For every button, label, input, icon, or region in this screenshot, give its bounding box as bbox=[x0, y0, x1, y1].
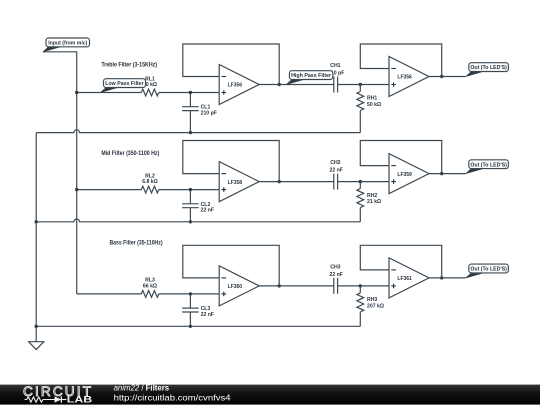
node feedback A junction bbox=[278, 284, 281, 287]
capacitor CH2 bbox=[329, 160, 342, 190]
svg-text:Out (To LED'S): Out (To LED'S) bbox=[470, 162, 507, 168]
svg-text:LF356: LF356 bbox=[228, 83, 243, 89]
svg-text:LF359: LF359 bbox=[397, 172, 412, 178]
wire CH1 to op-amp B bbox=[338, 84, 389, 86]
flag Out (To LED'S) row 2 bbox=[466, 160, 509, 174]
resistor RH2 bbox=[357, 182, 381, 222]
wire op-amp B output bbox=[429, 76, 466, 78]
svg-text:LAB: LAB bbox=[67, 395, 93, 405]
svg-text:RH2: RH2 bbox=[367, 193, 377, 199]
svg-text:21 kΩ: 21 kΩ bbox=[367, 199, 381, 205]
resistor RH3 bbox=[357, 286, 384, 326]
wire feedback op-amp LF356 bbox=[360, 44, 441, 77]
svg-text:LF360: LF360 bbox=[228, 284, 243, 290]
wire op-amp A output to CH1 bbox=[259, 84, 334, 86]
svg-text:22 nF: 22 nF bbox=[201, 312, 214, 318]
node feedback B junction bbox=[440, 172, 443, 175]
node CL3 top junction bbox=[189, 292, 192, 295]
node left rail row2 junction bbox=[35, 220, 38, 223]
svg-text:6.8 kΩ: 6.8 kΩ bbox=[142, 179, 158, 185]
ground bbox=[29, 342, 44, 350]
svg-text:RH3: RH3 bbox=[367, 297, 377, 303]
wire input to RL2 bbox=[77, 189, 142, 191]
svg-text:Out (To LED'S): Out (To LED'S) bbox=[470, 267, 507, 273]
svg-text:Treble Filter (3-15KHz): Treble Filter (3-15KHz) bbox=[101, 62, 157, 69]
node CL2 top junction bbox=[189, 188, 192, 191]
svg-text:Input (from mic): Input (from mic) bbox=[48, 41, 87, 47]
flag Low Pass Filter bbox=[101, 79, 146, 93]
wire feedback op-amp LF356 bbox=[183, 44, 279, 85]
capacitor CH1 bbox=[328, 63, 344, 93]
flag High Pass Filter bbox=[286, 71, 332, 85]
flag Out (To LED'S) row 1 bbox=[466, 63, 509, 77]
node feedback B junction bbox=[440, 276, 443, 279]
node input row1 junction bbox=[75, 91, 78, 94]
wire feedback op-amp LF361 bbox=[360, 245, 441, 278]
svg-text:22 nF: 22 nF bbox=[329, 272, 342, 278]
node RH3 top junction bbox=[359, 284, 362, 287]
wire op-amp B output bbox=[429, 173, 466, 175]
node input row2 junction bbox=[75, 188, 78, 191]
capacitor CL3 bbox=[182, 294, 214, 326]
svg-text:CH1: CH1 bbox=[330, 63, 340, 69]
CircuitLab logo resistor+diode bbox=[25, 396, 67, 402]
node left rail row3 junction bbox=[35, 325, 38, 328]
svg-text:66 kΩ: 66 kΩ bbox=[143, 283, 157, 289]
svg-text:LF358: LF358 bbox=[228, 180, 243, 186]
svg-text:RH1: RH1 bbox=[367, 96, 377, 102]
node CL3 bottom junction bbox=[189, 325, 192, 328]
wire input rail bbox=[43, 52, 77, 294]
svg-text:22 nF: 22 nF bbox=[201, 208, 214, 214]
svg-text:22 nF: 22 nF bbox=[329, 168, 342, 174]
svg-text:210 pF: 210 pF bbox=[201, 110, 217, 116]
node feedback A junction bbox=[278, 180, 281, 183]
svg-text:Low Pass Filter: Low Pass Filter bbox=[105, 81, 144, 87]
wire op-amp B output bbox=[429, 277, 466, 279]
capacitor CH3 bbox=[329, 264, 342, 294]
flag Input (from mic) bbox=[43, 38, 90, 52]
resistor RL2 bbox=[141, 173, 158, 193]
op-amp U4 LF359 bbox=[389, 154, 429, 194]
wire feedback op-amp LF360 bbox=[183, 245, 279, 286]
svg-text:LF356: LF356 bbox=[397, 75, 412, 81]
wire ground rail row 1 bbox=[36, 130, 360, 133]
wire feedback op-amp LF358 bbox=[183, 141, 279, 182]
node CL2 bottom junction bbox=[189, 220, 192, 223]
svg-text:50 kΩ: 50 kΩ bbox=[367, 102, 381, 108]
svg-text:Bass Filter (35-110Hz): Bass Filter (35-110Hz) bbox=[109, 239, 162, 246]
wire RL1 to op-amp A bbox=[159, 92, 220, 94]
svg-text:LF361: LF361 bbox=[397, 276, 412, 282]
resistor RL1 bbox=[141, 76, 158, 96]
resistor RH1 bbox=[357, 85, 381, 133]
node RH1 top junction bbox=[359, 83, 362, 86]
wire feedback op-amp LF359 bbox=[360, 141, 441, 174]
wire RL2 to op-amp A bbox=[159, 189, 220, 191]
wire left ground rail bbox=[35, 133, 37, 342]
CircuitLab logo CIRCUIT bbox=[23, 384, 91, 399]
op-amp U2 LF356 bbox=[389, 57, 429, 97]
op-amp U5 LF360 bbox=[219, 266, 259, 306]
node CL1 top junction bbox=[189, 91, 192, 94]
node CL1 bottom junction bbox=[189, 131, 192, 134]
op-amp U3 LF358 bbox=[219, 162, 259, 202]
wire ground rail row 3 bbox=[36, 325, 360, 327]
resistor RL3 bbox=[141, 278, 158, 298]
wire op-amp A output to CH3 bbox=[259, 285, 334, 287]
svg-text:Mid Filter (350-1100 Hz): Mid Filter (350-1100 Hz) bbox=[101, 150, 159, 157]
flag Out (To LED'S) row 3 bbox=[466, 264, 509, 278]
svg-text:207 kΩ: 207 kΩ bbox=[367, 303, 384, 309]
capacitor CL2 bbox=[182, 190, 214, 222]
svg-text:CH2: CH2 bbox=[330, 160, 340, 166]
wire input to RL3 bbox=[77, 293, 142, 295]
op-amp U1 LF356 bbox=[219, 65, 259, 105]
node feedback A junction bbox=[278, 83, 281, 86]
wire RL3 to op-amp A bbox=[159, 293, 220, 295]
svg-text:CH3: CH3 bbox=[330, 264, 340, 270]
op-amp U6 LF361 bbox=[389, 258, 429, 298]
CircuitLab footer bar bbox=[0, 385, 540, 405]
svg-text:http://circuitlab.com/cvnfvs4: http://circuitlab.com/cvnfvs4 bbox=[114, 393, 232, 402]
wire ground rail row 2 bbox=[36, 219, 360, 222]
wire CH2 to op-amp B bbox=[338, 181, 389, 183]
svg-text:High Pass Filter: High Pass Filter bbox=[291, 73, 332, 79]
wire op-amp A output to CH2 bbox=[259, 181, 334, 183]
svg-text:anim22 / Filters: anim22 / Filters bbox=[114, 383, 170, 392]
node feedback B junction bbox=[440, 75, 443, 78]
svg-text:Out (To LED'S): Out (To LED'S) bbox=[470, 65, 507, 71]
wire CH3 to op-amp B bbox=[338, 285, 389, 287]
node RH2 top junction bbox=[359, 180, 362, 183]
capacitor CL1 bbox=[182, 93, 217, 133]
wire input to RL1 bbox=[77, 92, 142, 94]
